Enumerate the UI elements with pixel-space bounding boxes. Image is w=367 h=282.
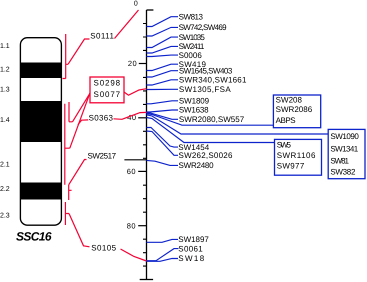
svg-text:80: 80 xyxy=(127,221,136,230)
svg-text:SW813: SW813 xyxy=(179,12,204,21)
svg-text:SW1035: SW1035 xyxy=(179,33,206,42)
svg-text:SW1305,FSA: SW1305,FSA xyxy=(179,85,231,94)
red connector S0105 label to axis xyxy=(121,249,147,261)
blue connector to box SW208 group xyxy=(147,114,274,126)
svg-text:1.4: 1.4 xyxy=(0,117,10,124)
svg-text:2.2: 2.2 xyxy=(0,186,10,193)
svg-text:0: 0 xyxy=(134,0,138,7)
red diagonal S0077 bracket to box xyxy=(73,93,91,122)
svg-text:SW977: SW977 xyxy=(277,161,305,170)
svg-text:SW382: SW382 xyxy=(330,168,356,177)
band 1.2 (black) xyxy=(20,63,61,79)
svg-text:SW742,SW469: SW742,SW469 xyxy=(179,23,228,32)
red connector box to axis xyxy=(124,89,147,96)
blue connector SW1454 xyxy=(147,128,179,148)
svg-text:SWR2480: SWR2480 xyxy=(179,161,215,170)
axis major tick 60 xyxy=(138,170,146,172)
svg-text:SW1341: SW1341 xyxy=(330,144,358,153)
blue connector S0006 xyxy=(147,55,179,56)
band 1.4 (black) xyxy=(20,101,61,142)
svg-text:SW262,S0026: SW262,S0026 xyxy=(179,151,233,160)
svg-text:SWR2086: SWR2086 xyxy=(276,105,313,114)
svg-text:SW81: SW81 xyxy=(330,156,349,165)
red connector S0363 label to axis xyxy=(114,112,147,119)
svg-text:1.3: 1.3 xyxy=(0,87,10,94)
svg-text:SW1090: SW1090 xyxy=(330,132,359,141)
svg-text:S0006: S0006 xyxy=(179,51,203,60)
red bracket for S0111 on ideogram xyxy=(63,34,69,79)
svg-text:SW208: SW208 xyxy=(276,96,303,105)
axis major tick 80 xyxy=(138,225,146,227)
axis top tick (0) xyxy=(147,9,154,11)
svg-text:S0363: S0363 xyxy=(89,113,114,122)
red bracket for S0298 on ideogram xyxy=(65,104,70,185)
red connector S0111 label to axis 0 xyxy=(115,10,139,39)
svg-text:SW1897: SW1897 xyxy=(178,235,209,244)
blue connector SWR340,SW1661 xyxy=(147,80,179,85)
axis minor ticks every 5 cM xyxy=(143,24,147,267)
red box S0298/S0077 xyxy=(90,77,124,103)
blue box SW1090 group xyxy=(328,129,365,178)
blue connector SW1305,FSA xyxy=(147,88,179,90)
blue connector SWR2480 xyxy=(147,160,179,165)
axis major tick 40 xyxy=(138,117,146,119)
red bracket for S0105 on ideogram xyxy=(65,202,69,225)
blue connector SW1638 xyxy=(147,110,179,112)
blue connector SW742,SW469 xyxy=(147,27,179,36)
red bracket for SW2517 on ideogram xyxy=(69,185,72,200)
axis bottom tick (100) xyxy=(140,279,153,281)
blue connector SWR2080,SW557 xyxy=(147,113,179,120)
axis major tick 20 xyxy=(139,63,147,65)
svg-text:S0111: S0111 xyxy=(90,32,114,41)
svg-text:1.2: 1.2 xyxy=(0,66,10,73)
svg-text:SWR340,SW1661: SWR340,SW1661 xyxy=(179,76,247,85)
svg-text:SW2411: SW2411 xyxy=(179,42,205,51)
svg-text:SW1638: SW1638 xyxy=(179,106,209,115)
blue connector SW419 xyxy=(147,64,179,70)
svg-text:20: 20 xyxy=(128,59,137,68)
svg-text:2.3: 2.3 xyxy=(0,212,10,219)
svg-text:SW1809: SW1809 xyxy=(179,97,210,106)
blue connector SW1645,SW403 xyxy=(147,71,179,77)
blue connector SW262,S0026 xyxy=(147,131,179,155)
svg-text:SW18: SW18 xyxy=(178,254,204,263)
red connector bracket to SW2517 label xyxy=(69,160,87,185)
black connector SW2517 label to axis xyxy=(124,159,146,161)
red connector bracket to S0105 label xyxy=(69,214,90,247)
blue connector SW18 xyxy=(147,259,179,262)
svg-text:S0298: S0298 xyxy=(94,79,121,88)
svg-text:S0061: S0061 xyxy=(178,244,203,253)
svg-text:SWR1106: SWR1106 xyxy=(277,151,316,160)
svg-text:1.1: 1.1 xyxy=(0,43,10,50)
red diagonal S0298 bracket to box xyxy=(70,93,90,148)
chromosome ideogram SSC16 outline xyxy=(20,38,61,226)
blue connector SW2411 xyxy=(147,46,179,53)
band 2.2 (black) xyxy=(20,183,61,200)
red connector bracket to S0111 label xyxy=(68,39,90,64)
svg-text:ABPS: ABPS xyxy=(276,116,296,125)
svg-text:SW1645,SW403: SW1645,SW403 xyxy=(179,66,233,75)
svg-text:SSC16: SSC16 xyxy=(16,229,52,243)
svg-text:S0077: S0077 xyxy=(94,90,121,99)
blue box SW5 group xyxy=(275,139,322,175)
svg-text:SW5: SW5 xyxy=(277,141,292,150)
red connector to S0363 label xyxy=(78,120,88,125)
svg-text:S0105: S0105 xyxy=(91,243,116,252)
blue connector to box SW5 group xyxy=(147,118,275,143)
blue connector SW813 xyxy=(147,17,179,27)
blue connector SW1809 xyxy=(147,101,179,104)
svg-text:2.1: 2.1 xyxy=(0,162,10,169)
blue connector SW1897 xyxy=(147,239,179,242)
svg-text:SW2517: SW2517 xyxy=(88,152,117,161)
blue connector SW1035 xyxy=(147,37,179,47)
svg-text:SWR2080,SW557: SWR2080,SW557 xyxy=(179,115,245,124)
red bracket for S0077 on ideogram xyxy=(69,102,73,122)
blue connector to box SW1090 group xyxy=(147,115,329,134)
cM axis main line xyxy=(146,10,148,280)
blue box SW208 group xyxy=(273,95,320,128)
svg-text:60: 60 xyxy=(127,167,136,176)
blue connector S0061 xyxy=(147,249,179,261)
